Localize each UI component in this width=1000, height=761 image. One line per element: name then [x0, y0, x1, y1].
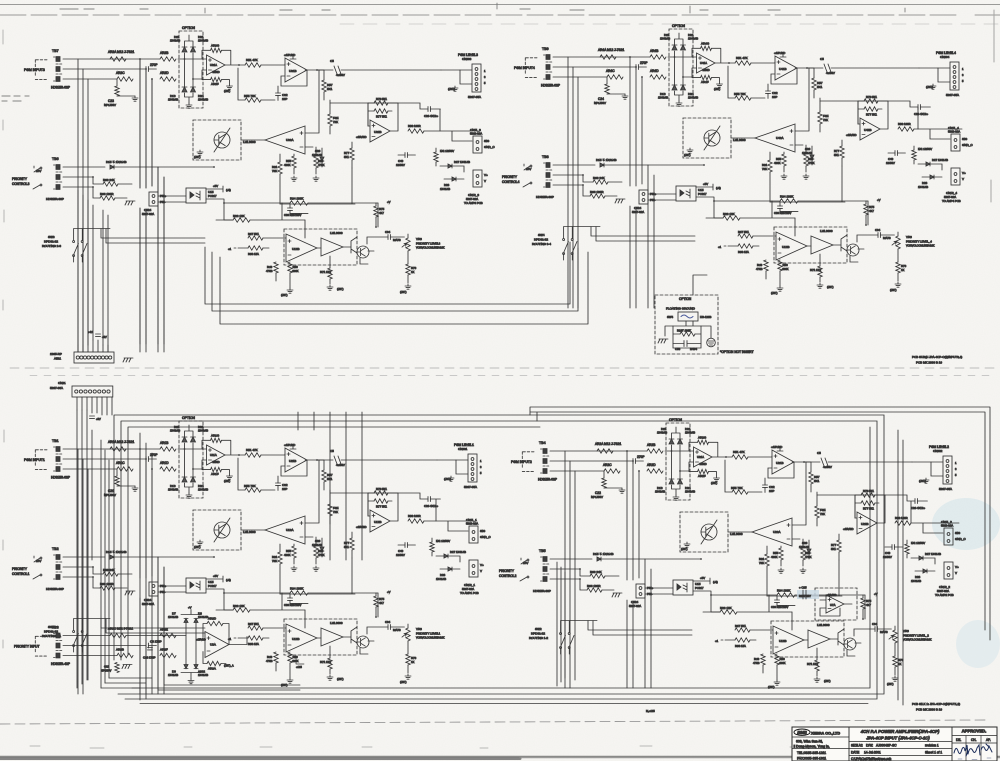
op-amp LML3600 priority vca — [321, 621, 343, 646]
svg-text:1N414B: 1N414B — [918, 185, 928, 189]
resistor R275 4K7 vertical — [861, 595, 872, 619]
svg-text:(JNT): (JNT) — [684, 153, 691, 157]
resistor R280 100R — [895, 516, 911, 525]
wire row B links — [280, 103, 368, 204]
svg-text:470K: 470K — [805, 555, 812, 559]
wire priority links — [795, 201, 868, 262]
svg-text:PRIORITY LEVEL3: PRIORITY LEVEL3 — [416, 242, 441, 246]
svg-text:PRIORITY LEVEL_4: PRIORITY LEVEL_4 — [906, 240, 932, 244]
ground — [227, 474, 233, 479]
svg-text:R34 100K: R34 100K — [290, 197, 303, 201]
op-amp LML3600 priority vca — [811, 229, 833, 254]
wire output node — [794, 461, 806, 463]
svg-text:R107 100K: R107 100K — [677, 329, 691, 333]
resistor R149 470B vertical — [266, 652, 278, 663]
svg-text:AR3A M12 J-7S21: AR3A M12 J-7S21 — [108, 50, 134, 54]
ground — [687, 148, 693, 153]
capacitor C32 10P — [763, 478, 775, 493]
diode D12 1N414B — [593, 552, 701, 561]
connector PGM LEVEL CH3 — [458, 53, 486, 99]
svg-text:V+: V+ — [484, 173, 488, 177]
svg-text:U41A: U41A — [700, 61, 707, 65]
resistor R379 5K1 — [374, 97, 388, 105]
resistor R377 5K1 — [374, 109, 388, 119]
svg-text:4K7: 4K7 — [866, 603, 871, 607]
svg-text:(+5): (+5) — [226, 188, 231, 192]
svg-text:U2A: U2A — [210, 643, 216, 647]
svg-text:10P: 10P — [282, 97, 287, 101]
ground — [327, 675, 333, 680]
connector PGM LEVEL CH4 — [936, 51, 964, 97]
svg-text:HD515R-03P: HD515R-03P — [46, 587, 64, 591]
wire feedback loop — [771, 68, 797, 84]
svg-text:LML3600: LML3600 — [820, 229, 833, 233]
resistor R180 100R — [408, 514, 424, 523]
ground — [717, 82, 723, 87]
svg-text:+1: +1 — [228, 247, 232, 251]
capacitor C10 270P — [143, 648, 156, 660]
optocoupler U15 PC817 — [158, 574, 231, 593]
diode D41 1N414B upper-left — [660, 33, 677, 50]
resistor R155 430K vertical — [284, 544, 296, 564]
ground — [673, 495, 679, 500]
resistor R449 470B vertical — [756, 260, 768, 271]
svg-text:PGM INPUT1: PGM INPUT1 — [24, 458, 45, 462]
svg-text:R79 5K1: R79 5K1 — [863, 489, 874, 493]
svg-text:1N414B: 1N414B — [312, 543, 322, 547]
diode D34 lower-right — [191, 87, 209, 102]
wire vca — [241, 70, 319, 147]
wire diode to opamp — [178, 59, 207, 79]
connector CN12_3 — [464, 170, 488, 205]
resistor R161 70K vertical — [272, 544, 282, 594]
svg-text:AR2B: AR2B — [647, 443, 655, 447]
dashed box priority vca cluster — [284, 619, 357, 655]
op-amp U7A aux — [826, 593, 844, 613]
dashed option box — [179, 421, 203, 498]
resistor R175 4K7 vertical — [374, 593, 385, 617]
wire — [239, 454, 285, 455]
svg-text:R71 27A: R71 27A — [320, 270, 331, 274]
connector TB2 priority control — [12, 547, 64, 591]
svg-text:C11: C11 — [104, 665, 109, 669]
svg-text:24V: 24V — [523, 561, 528, 565]
switch SW3 routing — [42, 235, 87, 257]
svg-text:PCB SILK 1: JPA-4CP-C(INPUT1,2: PCB SILK 1: JPA-4CP-C(INPUT1,2) — [912, 702, 960, 706]
svg-text:PRIORITY: PRIORITY — [502, 175, 518, 179]
resistor R355 430K vertical — [284, 154, 296, 174]
diode D14 1N414B — [596, 158, 704, 167]
svg-text:MA7S: MA7S — [393, 628, 401, 632]
connector CN11_4 SIG/GND — [948, 126, 973, 151]
resistor R276 1K vertical — [893, 643, 904, 675]
capacitor C40 10/50V — [396, 153, 415, 168]
svg-text:10P: 10P — [282, 487, 287, 491]
resistor R271 27A vertical — [807, 648, 819, 676]
ground — [774, 680, 780, 685]
connector CN22 PRI — [629, 584, 654, 608]
capacitor C13 270P — [140, 63, 157, 72]
op-amp U23B — [750, 626, 808, 654]
ground — [227, 84, 233, 89]
connector CN11_3 SIG/GND — [470, 128, 495, 153]
resistor R168 15A — [228, 636, 269, 646]
svg-text:LML3600: LML3600 — [817, 623, 830, 627]
potentiometer VR2 priority level — [889, 626, 932, 643]
svg-text:(JNT): (JNT) — [824, 679, 831, 683]
svg-text:CN304: CN304 — [940, 55, 950, 59]
svg-text:PC817: PC817 — [695, 586, 704, 590]
wire row B links — [770, 101, 858, 202]
svg-text:EX: 18/50V: EX: 18/50V — [436, 539, 450, 543]
ground — [132, 486, 138, 491]
svg-text:1N414B: 1N414B — [170, 39, 180, 43]
resistor R134 100K — [290, 587, 308, 596]
svg-text:1N414B: 1N414B — [802, 151, 812, 155]
resistor AR2D — [647, 463, 663, 473]
connector CN11_2 SIG/GND — [941, 520, 966, 545]
svg-text:1K: 1K — [898, 662, 902, 666]
op-amp U13B — [263, 624, 321, 652]
resistor AR4A — [598, 48, 624, 59]
capacitor C34 MA7S — [854, 622, 891, 636]
capacitor C24 NP1/50V — [594, 77, 625, 105]
capacitor C25 highlighted BR — [797, 586, 819, 600]
svg-text:R67 5K1: R67 5K1 — [248, 232, 259, 236]
svg-text:CH.: CH. — [971, 738, 977, 742]
svg-text:CN21: CN21 — [58, 381, 66, 385]
svg-text:CONTROL2: CONTROL2 — [499, 574, 517, 578]
svg-text:C34: C34 — [875, 228, 881, 232]
svg-text:(JNT): (JNT) — [194, 545, 201, 549]
wire input bus verticals — [627, 451, 651, 688]
svg-text:HD515R-03P: HD515R-03P — [538, 478, 557, 482]
resistor AR4G feedback — [692, 42, 729, 64]
svg-text:(JNT): (JNT) — [224, 480, 230, 483]
resistor AR3F — [160, 648, 176, 658]
svg-text:5267-05A: 5267-05A — [939, 487, 952, 491]
optocoupler U25 PC817 — [645, 576, 718, 595]
connector TB3 priority input — [14, 626, 70, 667]
svg-text:+V: +V — [387, 200, 391, 204]
capacitor bypass at 1395 — [88, 330, 107, 339]
svg-text:R23 12K: R23 12K — [723, 212, 735, 216]
resistor R479 5K1 — [864, 95, 878, 103]
svg-text:AR2D: AR2D — [647, 463, 656, 467]
svg-text:U23A: U23A — [773, 530, 781, 534]
svg-text:1N414B: 1N414B — [198, 429, 208, 433]
capacitor C8 270P — [126, 636, 186, 649]
svg-text:LML3600: LML3600 — [330, 621, 343, 625]
svg-text:5267-05A: 5267-05A — [468, 95, 481, 99]
svg-text:HD515R-43P: HD515R-43P — [51, 662, 70, 666]
svg-text:(JNT): (JNT) — [400, 290, 407, 294]
ground — [327, 285, 333, 290]
svg-text:R80 100R: R80 100R — [408, 124, 421, 128]
svg-text:+15VBD: +15VBD — [774, 51, 786, 55]
connector TB9 program input CH4 — [514, 47, 560, 88]
svg-text:U13B: U13B — [292, 637, 300, 641]
resistor R166 100R — [93, 577, 127, 590]
svg-text:PGM INPUT2: PGM INPUT2 — [511, 460, 532, 464]
diode D9 1N414B — [168, 665, 188, 678]
svg-text:+105: +105 — [296, 665, 302, 669]
connector TB8 priority control — [502, 155, 554, 199]
resistor R234 100K — [777, 589, 795, 598]
svg-text:5262-02A: 5262-02A — [948, 130, 960, 134]
svg-text:(JNT): (JNT) — [827, 285, 834, 289]
wire u2a output to priority vca — [229, 637, 247, 645]
wire vca — [241, 460, 319, 537]
svg-text:(JNT): (JNT) — [400, 680, 407, 684]
svg-text:(JNT): (JNT) — [337, 677, 344, 681]
switch contact priority — [33, 166, 40, 189]
svg-text:V: V — [480, 569, 482, 573]
capacitor C21 NP1/50V — [104, 469, 135, 497]
dashed input bracket tb3 — [35, 636, 47, 656]
svg-text:TB4: TB4 — [539, 441, 546, 445]
svg-text:AR4C: AR4C — [606, 69, 615, 73]
svg-text:AR4G: AR4G — [701, 42, 710, 46]
wire — [553, 165, 595, 185]
dashed input bracket — [522, 452, 534, 472]
wire input bus verticals — [140, 59, 164, 352]
svg-text:4K7: 4K7 — [379, 601, 384, 605]
svg-text:PGM INPUT4: PGM INPUT4 — [514, 66, 535, 70]
junction dots priority — [92, 176, 94, 178]
connector 1395-RP A521 — [50, 352, 114, 363]
svg-text:TO AMP2 PCB: TO AMP2 PCB — [935, 593, 954, 597]
wire diode-quad rails — [672, 427, 681, 495]
resistor R277 5K1 — [861, 501, 875, 511]
switch SW4 routing — [532, 233, 577, 255]
connector TB5 priority control — [499, 549, 551, 593]
svg-text:R69 24K: R69 24K — [103, 178, 115, 182]
transistor Q23 — [830, 629, 856, 650]
svg-text:PGM INPUT3: PGM INPUT3 — [24, 68, 45, 72]
svg-text:U13A: U13A — [286, 528, 294, 532]
op-amp U22B — [843, 512, 877, 534]
svg-text:V+: V+ — [480, 563, 484, 567]
ground — [612, 593, 622, 597]
connector TB7 program input CH3 — [24, 49, 70, 90]
svg-text:(JNT): (JNT) — [714, 88, 720, 91]
svg-text:NP1/50V: NP1/50V — [594, 101, 606, 105]
connector CN21 PRI — [142, 582, 167, 606]
switch SW1 routing — [42, 625, 87, 647]
ground — [125, 591, 135, 595]
svg-text:430K: 430K — [284, 163, 291, 167]
svg-text:A521: A521 — [54, 357, 61, 361]
wire tb column verticals — [568, 57, 578, 308]
svg-text:470K: 470K — [808, 161, 815, 165]
resistor R250 430K vertical — [775, 654, 786, 665]
ground — [778, 568, 784, 573]
resistor R434 100K — [780, 195, 798, 204]
svg-text:5K1: 5K1 — [817, 85, 823, 89]
resistor AR3A — [203, 652, 234, 671]
potentiometer VR4 priority level — [892, 232, 935, 249]
svg-text:70K: 70K — [272, 559, 277, 563]
svg-text:U33A: U33A — [286, 138, 294, 142]
scan speckles bottom margin — [30, 746, 798, 748]
wire vca — [728, 462, 806, 539]
svg-text:1N414B: 1N414B — [198, 39, 208, 43]
diode D8 1N414B — [194, 612, 208, 623]
capacitor C12 270P — [627, 455, 644, 464]
diode D33 lower-left — [168, 87, 187, 102]
connector CN21 5267-08A — [50, 381, 113, 397]
svg-text:MA7S: MA7S — [393, 238, 401, 242]
wire program level line — [809, 67, 938, 69]
resistor AR2F — [689, 462, 717, 478]
wire switch leads — [564, 227, 695, 261]
svg-text:R67 5K1: R67 5K1 — [738, 230, 749, 234]
junction — [184, 58, 186, 60]
diode D22 1N414B upper-right — [678, 427, 696, 444]
capacitor C33 10P — [276, 86, 288, 101]
resistor F1E 72K vertical — [328, 490, 339, 524]
svg-text:PRIORITY: PRIORITY — [12, 567, 28, 571]
svg-text:GND_C: GND_C — [962, 143, 973, 147]
resistor EX 18/50V — [912, 146, 932, 164]
svg-text:PRIORITY LEVEL1: PRIORITY LEVEL1 — [416, 632, 441, 636]
ground — [287, 678, 293, 683]
svg-text:(JNT): (JNT) — [194, 155, 201, 159]
svg-text:+15VBD: +15VBD — [843, 527, 854, 531]
svg-text:R51 47K: R51 47K — [246, 58, 258, 62]
wire diode to opamp — [178, 449, 207, 469]
svg-text:+4V: +4V — [88, 330, 93, 334]
big bus rectangle middle — [121, 421, 877, 699]
big bus rectangle outer — [114, 415, 884, 694]
svg-text:SIG: SIG — [955, 531, 961, 535]
wire option box riser — [693, 275, 707, 295]
diode D43 lower-left — [658, 85, 677, 100]
resistor EX 18/50V — [430, 538, 450, 556]
resistor R179 5K1 — [374, 487, 388, 495]
resistor R249 470B vertical — [753, 654, 765, 665]
switch contact priority — [523, 164, 530, 187]
svg-text:OPTION: OPTION — [182, 416, 196, 420]
svg-text:Il Dong-Myeon, Yong In,: Il Dong-Myeon, Yong In, — [794, 745, 830, 749]
op-amp U43B — [753, 232, 811, 260]
title cell row dividers — [849, 742, 952, 756]
connector CN11_1 SIG/GND — [466, 518, 491, 543]
resistor R368 15A — [228, 246, 269, 256]
resistor R480 100R — [898, 122, 914, 131]
resistor AR3C — [108, 627, 133, 638]
svg-text:R23 12K: R23 12K — [233, 604, 245, 608]
svg-text:CONTROL4: CONTROL4 — [502, 180, 520, 184]
resistor R107 100K — [677, 329, 695, 337]
capacitor cn21 bypass — [90, 416, 101, 421]
svg-text:PC817: PC817 — [208, 194, 217, 198]
resistor R376 1K vertical — [406, 251, 417, 283]
wire opto out — [693, 591, 769, 612]
resistor AR4C — [606, 69, 623, 79]
svg-text:JPA-4CP INPUT (JPA-4CP-C-1C): JPA-4CP INPUT (JPA-4CP-C-1C) — [866, 736, 930, 741]
svg-text:ROUTING 3-4: ROUTING 3-4 — [532, 242, 551, 246]
svg-text:72K: 72K — [823, 118, 828, 122]
svg-text:4558D: 4558D — [212, 460, 220, 464]
svg-text:VORVOLCOM.5K5A10K: VORVOLCOM.5K5A10K — [416, 636, 445, 640]
wire opto out — [206, 589, 282, 610]
svg-text:5267-05A: 5267-05A — [464, 485, 477, 489]
capacitor C14 270P — [630, 61, 647, 70]
svg-text:430K: 430K — [782, 267, 789, 271]
svg-text:EX: 18/50V: EX: 18/50V — [911, 541, 925, 545]
bus bottom extra line — [140, 703, 868, 705]
op-amp LML3600 priority vca — [808, 623, 830, 648]
svg-text:R34 100K: R34 100K — [777, 589, 790, 593]
svg-text:R77 5K1: R77 5K1 — [863, 507, 874, 511]
svg-text:V: V — [484, 179, 486, 183]
wire to CN11 — [914, 129, 962, 139]
svg-text:PRIORITY: PRIORITY — [12, 177, 28, 181]
dashed box priority vca cluster — [774, 227, 847, 263]
svg-text:VORVOLCOM.5K5A10K: VORVOLCOM.5K5A10K — [416, 246, 445, 250]
svg-text:5267-02A: 5267-02A — [632, 210, 644, 214]
connector TB1 program input CH1 — [24, 439, 70, 480]
connector CN24 PRI — [632, 190, 657, 214]
resistor R471 27A vertical — [810, 254, 822, 282]
svg-text:SW3: SW3 — [48, 235, 55, 239]
svg-text:AR1F: AR1F — [211, 472, 219, 476]
wire TB column verticals BL — [77, 410, 92, 688]
svg-text:ROUTING 2-3: ROUTING 2-3 — [42, 244, 61, 248]
wire connector feed — [437, 460, 468, 474]
resistor R52 47K — [732, 450, 748, 459]
ground — [714, 476, 720, 481]
diode D22 1N414B — [436, 567, 460, 581]
svg-text:U13B: U13B — [779, 639, 787, 643]
resistor AR1D — [160, 461, 176, 471]
resistor AR4F — [692, 68, 720, 84]
wire tb column verticals — [565, 451, 575, 688]
resistor AR3F — [202, 70, 230, 86]
wire to CN11 — [911, 523, 959, 533]
svg-text:OPTION: OPTION — [182, 26, 196, 30]
svg-text:1N414B: 1N414B — [688, 37, 698, 41]
resistor EX 18/50V — [905, 540, 925, 558]
svg-text:270P: 270P — [150, 63, 157, 67]
earth ground circle — [707, 338, 716, 347]
svg-text:C5: C5 — [817, 451, 821, 455]
wire tb3 leads — [63, 636, 140, 656]
svg-text:5267-08A: 5267-08A — [50, 386, 63, 390]
diode D11 1N414B upper-left — [170, 425, 187, 442]
routing bus horizontal top half — [205, 242, 588, 324]
svg-text:R71 27A: R71 27A — [807, 662, 818, 666]
wire switch leads — [74, 229, 205, 263]
svg-text:U43A: U43A — [776, 136, 784, 140]
resistor AR3D feedback — [203, 617, 229, 645]
resistor R169 24K — [93, 567, 132, 576]
svg-text:PC817: PC817 — [208, 584, 217, 588]
wire opamp2b — [858, 101, 888, 129]
svg-text:HD515R-03P: HD515R-03P — [533, 589, 551, 593]
svg-text:SIG: SIG — [480, 529, 486, 533]
op-amp U21B buffer — [771, 445, 794, 474]
capacitor C40 10/50V — [883, 545, 902, 560]
ground — [125, 201, 135, 205]
resistor R477 5K1 — [864, 107, 878, 117]
capacitor C21 4X12 — [368, 493, 440, 521]
svg-text:5267-05A: 5267-05A — [946, 93, 959, 97]
svg-text:1N414B: 1N414B — [198, 98, 208, 102]
ground — [197, 150, 203, 155]
